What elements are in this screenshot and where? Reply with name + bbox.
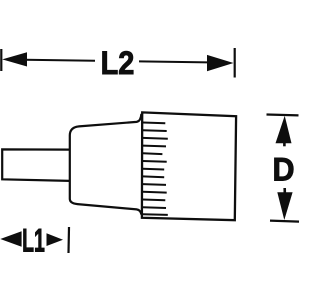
dimension L2 left extension tick: [0, 49, 2, 71]
dimension D top extension tick: [267, 113, 299, 116]
knurling tick 10: [143, 191, 167, 194]
knurling tick 6: [143, 160, 167, 163]
dimension D bottom extension tick: [270, 221, 299, 222]
dimension L1 right extension tick: [67, 227, 70, 253]
svg-text:D: D: [273, 151, 295, 187]
svg-text:L2: L2: [101, 45, 135, 81]
knurling tick 4: [143, 145, 166, 148]
dimension L2 right extension tick: [234, 48, 236, 78]
knurling tick 2: [143, 129, 167, 132]
dimension L2 left arrowhead: [2, 52, 27, 66]
socket body (tapered neck): [70, 114, 142, 215]
dimension L2 left line: [25, 60, 95, 61]
dimension D down arrowhead: [277, 192, 292, 220]
knurling tick 9: [143, 183, 166, 186]
knurling tick 12: [143, 206, 166, 209]
dimension L1 left arrowhead: [0, 231, 21, 246]
dimension L2 right arrowhead: [207, 55, 234, 71]
knurling tick 8: [143, 175, 164, 178]
dimension D up arrow stub: [283, 143, 286, 147]
dimension L1 right arrowhead: [47, 233, 64, 246]
knurling tick 13: [143, 213, 168, 216]
knurled socket head outline: [142, 112, 236, 220]
knurling tick 5: [143, 152, 163, 155]
knurling tick 11: [143, 199, 166, 202]
knurling tick 3: [143, 137, 168, 140]
dimension D down arrow stub: [283, 188, 286, 193]
svg-text:L1: L1: [22, 223, 45, 259]
knurling tick 7: [143, 168, 164, 171]
dimension L2 right line: [139, 61, 208, 62]
dimension D up arrowhead: [276, 116, 292, 143]
shaft (square drive): [2, 149, 70, 181]
knurling tick 1: [143, 122, 166, 125]
